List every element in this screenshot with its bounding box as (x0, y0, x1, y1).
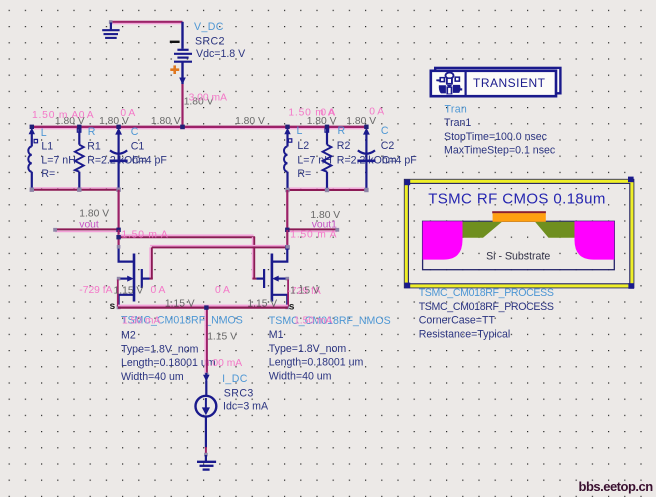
ground G2 bottom (197, 453, 216, 470)
SRC2 minus sign (170, 41, 180, 43)
svg-text:TSMC_CM018RF_PROCESS: TSMC_CM018RF_PROCESS (419, 287, 554, 299)
capacitor C2 (357, 128, 375, 190)
voltage source SRC2 (V_DC battery) (174, 22, 192, 85)
svg-text:M1: M1 (269, 329, 284, 341)
wire SRC3 to ground (205, 447, 207, 456)
svg-text:C: C (131, 126, 139, 138)
transistor M2 (NMOS) (119, 247, 150, 308)
svg-text:0 A: 0 A (320, 107, 335, 118)
gate top line maroon (492, 211, 546, 213)
magenta well left (423, 221, 463, 259)
capacitor C1 (110, 128, 128, 190)
svg-text:1.15 V: 1.15 V (165, 298, 195, 309)
svg-text:Idc=3 mA: Idc=3 mA (223, 400, 269, 412)
resistor R2 (323, 128, 332, 190)
svg-text:1.80 V: 1.80 V (79, 209, 109, 220)
svg-text:C1: C1 (131, 141, 145, 153)
wire M2 drain drop (117, 230, 119, 247)
svg-text:I_DC: I_DC (222, 373, 248, 385)
node labels 1.80 V on bus (55, 116, 376, 127)
svg-text:L: L (41, 127, 47, 139)
svg-text:0 A: 0 A (151, 285, 166, 296)
junction SRC2-bus (180, 125, 185, 130)
inductor L1 (28, 128, 37, 190)
svg-text:1.50 m A: 1.50 m A (32, 110, 79, 121)
wire C1 drop to vout node (117, 190, 119, 230)
svg-text:L: L (297, 125, 303, 137)
wire L2 drop to vout1 node (286, 190, 288, 230)
svg-text:MaxTimeStep=0.1 nsec: MaxTimeStep=0.1 nsec (444, 145, 556, 157)
inductor L2 (284, 128, 292, 190)
TRANSIENT controller box (431, 71, 556, 96)
svg-text:CornerCase=TT: CornerCase=TT (419, 315, 496, 327)
svg-text:1.15 V: 1.15 V (207, 332, 237, 343)
svg-text:1.15 V: 1.15 V (247, 298, 277, 309)
wire tank1 bottom bus (31, 188, 119, 190)
svg-text:R=: R= (41, 168, 55, 180)
substrate outline (423, 221, 615, 269)
wire vout1 stub (287, 229, 337, 231)
svg-text:SRC3: SRC3 (224, 387, 254, 399)
junction wire A at M2 drain (116, 235, 120, 239)
svg-text:3.00 mA: 3.00 mA (189, 93, 227, 104)
svg-text:s: s (289, 302, 295, 313)
wire cross-couple A (M2 drain to M1 gate) (119, 235, 257, 279)
svg-text:0 A: 0 A (215, 285, 230, 296)
svg-text:1.50 mA: 1.50 mA (294, 316, 332, 327)
wire M1 drain drop (286, 230, 288, 247)
gate orange (493, 213, 546, 222)
svg-text:R2: R2 (337, 140, 351, 152)
svg-text:Type=1.8V_nom: Type=1.8V_nom (269, 343, 347, 355)
current source SRC3 (I_DC) (196, 381, 217, 448)
svg-text:R: R (88, 126, 96, 138)
svg-text:bbs.eetop.cn: bbs.eetop.cn (579, 479, 654, 494)
svg-text:0 A: 0 A (120, 108, 135, 119)
svg-text:C=4 pF: C=4 pF (132, 154, 168, 166)
svg-text:3.00 mA: 3.00 mA (204, 358, 242, 369)
svg-text:-729 fA: -729 fA (79, 285, 112, 296)
wire ground1 to SRC2 (111, 22, 183, 24)
TSMC box corner handles (405, 177, 634, 289)
svg-text:Tran: Tran (445, 103, 468, 115)
magenta well right (575, 221, 615, 259)
wire M2 bulk-source tie (117, 280, 119, 307)
wire source bus to SRC3 (205, 308, 207, 374)
svg-text:Resistance=Typical: Resistance=Typical (419, 328, 511, 340)
svg-text:TRANSIENT: TRANSIENT (473, 76, 546, 90)
svg-text:TSMC_CM018RF_PROCESS: TSMC_CM018RF_PROCESS (419, 301, 554, 313)
svg-text:vout: vout (79, 219, 99, 230)
junction squares on buses (30, 125, 369, 129)
wire SRC2 to bus (181, 84, 183, 128)
vout1 stub end marker (335, 228, 339, 232)
current labels on bus right (288, 106, 384, 118)
current labels on bus left (32, 108, 135, 121)
svg-text:V_DC: V_DC (194, 21, 224, 33)
svg-text:1.15 V: 1.15 V (290, 286, 320, 297)
vout stub end marker (53, 228, 57, 232)
svg-text:R1: R1 (87, 141, 101, 153)
resistor R1 (75, 128, 84, 190)
svg-text:s: s (110, 301, 116, 312)
wire source bus (118, 306, 288, 308)
wire M1 bulk-source tie (287, 280, 289, 307)
svg-text:1.50 m A: 1.50 m A (122, 230, 169, 241)
svg-text:R=: R= (297, 168, 311, 180)
transistor M1 (NMOS) (256, 247, 287, 308)
svg-text:0 A: 0 A (79, 110, 94, 121)
svg-text:Width=40 um: Width=40 um (121, 371, 184, 383)
svg-text:TSMC RF CMOS 0.18um: TSMC RF CMOS 0.18um (428, 191, 606, 208)
svg-text:R: R (338, 125, 346, 137)
junction vout (116, 228, 120, 232)
ground G1 top-left (102, 20, 119, 38)
svg-text:1.80 V: 1.80 V (346, 116, 376, 127)
olive diffusion right (535, 222, 575, 238)
TRANSIENT controller shadow box (435, 68, 560, 93)
TSMC process figure box (404, 179, 633, 287)
svg-text:C2: C2 (381, 140, 395, 152)
svg-text:Type=1.8V_nom: Type=1.8V_nom (121, 343, 199, 355)
TRANSIENT divider (465, 70, 467, 97)
svg-text:Length=0.18001 um: Length=0.18001 um (121, 357, 216, 369)
M2 pin markers (117, 245, 121, 309)
current arrow on center wire (203, 373, 210, 382)
svg-text:Width=40 um: Width=40 um (269, 370, 332, 382)
TRANSIENT gear icon (436, 73, 462, 95)
svg-text:1.15 V: 1.15 V (114, 285, 144, 296)
svg-text:M2: M2 (121, 329, 136, 341)
wire vout stub (55, 229, 119, 231)
svg-text:L=7 nH: L=7 nH (41, 154, 75, 166)
svg-text:1.80 V: 1.80 V (235, 116, 265, 127)
svg-text:L=7 nH: L=7 nH (297, 154, 331, 166)
svg-text:StopTime=100.0 nsec: StopTime=100.0 nsec (444, 131, 548, 143)
svg-text:C=4 pF: C=4 pF (382, 154, 418, 166)
junction wire B at M1 drain (285, 245, 289, 249)
svg-text:Length=0.18001 um: Length=0.18001 um (269, 357, 364, 369)
junction source bus center (204, 305, 208, 309)
svg-text:SRC2: SRC2 (195, 36, 225, 48)
svg-text:Si - Substrate: Si - Substrate (486, 251, 550, 263)
SRC2 plus sign (170, 65, 179, 74)
wire cross-couple B (M2 gate to M1 drain) (150, 246, 288, 279)
svg-text:1.80 V: 1.80 V (151, 116, 181, 127)
svg-text:1.50 m A: 1.50 m A (290, 230, 337, 241)
olive diffusion left (462, 222, 502, 238)
svg-text:Tran1: Tran1 (444, 117, 471, 129)
svg-text:Vdc=1.8 V: Vdc=1.8 V (196, 48, 246, 60)
svg-text:0 A: 0 A (369, 106, 384, 117)
svg-text:C: C (381, 125, 389, 137)
svg-text:1.50 mA: 1.50 mA (122, 316, 160, 327)
wire tank2 bottom bus (287, 188, 366, 190)
M1 pin markers (285, 245, 289, 309)
svg-text:L1: L1 (41, 141, 53, 153)
wire top supply bus (31, 127, 367, 129)
svg-text:L2: L2 (297, 140, 309, 152)
junction vout1 (285, 228, 289, 232)
